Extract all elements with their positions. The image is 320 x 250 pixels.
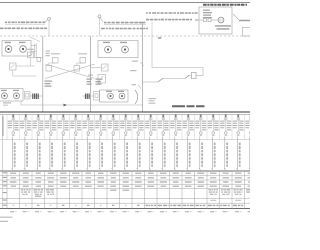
arrowhead 8: [99, 168, 101, 170]
switch S3: [102, 64, 109, 71]
bucket text 17: [208, 121, 213, 122]
pump motor M2: [20, 46, 27, 53]
breaker CB17: [212, 114, 214, 118]
crossover wire 1: [45, 64, 95, 79]
feeder wire 1: [11, 137, 13, 169]
breaker CB-G: [204, 18, 207, 21]
panel box P1: [2, 41, 31, 57]
bucket text 8: [95, 121, 100, 122]
starter M2: [25, 132, 28, 135]
bucket separator 19: [231, 114, 233, 139]
breaker CB7: [87, 114, 89, 118]
bucket separator 16: [194, 114, 196, 139]
feeder tag 15: [189, 143, 191, 146]
bucket text 10: [120, 121, 125, 122]
starter M19: [237, 132, 240, 135]
arrowhead 4: [49, 168, 51, 170]
pump motor M8: [14, 93, 20, 99]
breaker CB14: [175, 114, 177, 118]
starter M11: [137, 132, 140, 135]
feeder tag 8: [101, 143, 103, 146]
breaker CB12: [150, 114, 152, 118]
arrowhead 1: [11, 168, 13, 170]
starter K0: [10, 63, 17, 70]
arrowhead 5: [61, 168, 63, 170]
breaker CB15: [187, 114, 189, 118]
bucket text 2: [20, 121, 25, 122]
note 1 leader: [45, 20, 48, 23]
bucket separator 10: [119, 114, 121, 139]
feeder wire 7: [86, 137, 88, 169]
bucket separator 13: [156, 114, 158, 139]
feeder tag 14: [176, 143, 178, 146]
feeder wire 17: [211, 137, 213, 169]
feeder wire 13: [161, 137, 163, 169]
feeder B text right: [96, 79, 103, 80]
starter M10: [125, 132, 128, 135]
motor M4: [122, 46, 129, 53]
bucket separator 8: [94, 114, 96, 139]
arrowhead 7: [86, 168, 88, 170]
bucket separator 15: [181, 114, 183, 139]
wire: [30, 58, 32, 66]
note 2 leader: [100, 18, 103, 22]
wire to MCC: [143, 81, 159, 83]
pump motor M7: [2, 93, 8, 99]
starter M14: [175, 132, 178, 135]
bus name vertical text: [2, 116, 4, 136]
feeder wire 6: [74, 137, 76, 169]
arrowhead 15: [186, 168, 188, 170]
bucket text 13: [158, 121, 163, 122]
bucket text 3: [33, 121, 38, 122]
arrowhead 20: [249, 168, 251, 170]
feeder tag 1: [14, 143, 16, 146]
crossover wire 2: [45, 64, 95, 79]
feeder tag 6: [76, 143, 78, 146]
breaker CB18: [225, 114, 227, 118]
stab connection left: [32, 94, 34, 100]
wire tag1 drop: [48, 21, 50, 37]
feeder wire 20: [249, 137, 251, 169]
breaker CB16: [200, 114, 202, 118]
feeder tag 11: [139, 143, 141, 146]
motor M6: [119, 93, 125, 99]
breaker CB6: [75, 114, 77, 118]
schedule table row lines: [0, 175, 250, 177]
feeder wire 5: [61, 137, 63, 169]
breaker CB8: [100, 114, 102, 118]
bucket text 19: [233, 121, 238, 122]
starter M13: [162, 132, 165, 135]
junction arrow: [64, 104, 68, 107]
bucket text 11: [133, 121, 138, 122]
vertical feeder A: [42, 36, 44, 112]
motor M5: [108, 93, 114, 99]
breaker CB19: [237, 114, 239, 118]
starter M12: [150, 132, 153, 135]
row header labels: [3, 172, 7, 173]
bus label MCC (dark): [172, 105, 185, 107]
feeder tag 7: [89, 143, 91, 146]
arrow marker: [158, 37, 161, 38]
480V horizontal bus: [0, 111, 250, 113]
generator note text (dark): [203, 4, 207, 6]
general notes text: [0, 217, 13, 218]
bucket separator 5: [56, 114, 58, 139]
feeder wire 2: [24, 137, 26, 169]
hp value marks: [10, 211, 14, 212]
arrowhead 19: [236, 168, 238, 170]
bucket separator 11: [131, 114, 133, 139]
bucket text 16: [195, 121, 200, 122]
starter M20: [250, 132, 253, 135]
feeder tag 20: [251, 143, 253, 146]
breaker CB2: [25, 114, 27, 118]
feeder tag 2: [26, 143, 28, 146]
feeder tag 3: [39, 143, 41, 146]
motor labels P1: [5, 42, 12, 43]
generator data text: [203, 10, 210, 11]
switch contact 2: [158, 78, 163, 82]
arrowhead 13: [161, 168, 163, 170]
starter M1: [12, 132, 15, 135]
generator rating label: [215, 25, 231, 26]
bucket separator 12: [144, 114, 146, 139]
breaker CB4: [50, 114, 52, 118]
feeder wire 3: [36, 137, 38, 169]
disconnect switch S1: [27, 49, 34, 50]
feeder wire 10: [124, 137, 126, 169]
note tag 1: [48, 17, 51, 20]
fused switch: [37, 58, 41, 62]
pump motor M1: [5, 46, 12, 53]
arrowhead 17: [211, 168, 213, 170]
feeder tag 4: [51, 143, 53, 146]
bucket separator 17: [206, 114, 208, 139]
bucket text 9: [108, 121, 113, 122]
motor labels P4: [106, 91, 112, 92]
contactor K1: [53, 58, 59, 64]
bucket separator 18: [219, 114, 221, 139]
bucket text 7: [83, 121, 88, 122]
breaker CB3: [37, 114, 39, 118]
panel P2 note text: [3, 102, 11, 103]
bucket text 1: [8, 121, 13, 122]
starter K3: [98, 75, 106, 84]
feeder tag 5: [64, 143, 66, 146]
feeder tag 10: [126, 143, 128, 146]
wire: [163, 78, 185, 80]
arrowhead 12: [149, 168, 151, 170]
schedule table column lines: [1, 114, 3, 208]
motor M3: [105, 46, 112, 53]
bucket text 18: [220, 121, 225, 122]
tall row extra line col2: [35, 196, 41, 197]
arrowhead 6: [74, 168, 76, 170]
arrowhead 18: [224, 168, 226, 170]
feeder tag 13: [164, 143, 166, 146]
tall row small text cols 8-9: [110, 190, 117, 191]
feeder wire 19: [236, 137, 238, 169]
feeder wire 9: [111, 137, 113, 169]
feeder tag 12: [151, 143, 153, 146]
feeder wire right: [233, 14, 239, 20]
wires P1 to feeder: [31, 45, 36, 47]
feeder tag 16: [201, 143, 203, 146]
table cell text: [10, 173, 16, 174]
vertical feeder C: [142, 22, 144, 113]
text K3: [88, 75, 93, 76]
bucket strip bottom line: [0, 139, 250, 141]
contactor cluster right text: [78, 53, 87, 54]
arrowhead 3: [36, 168, 38, 170]
feeder wire 15: [186, 137, 188, 169]
bucket text 20: [245, 121, 250, 122]
switch contact 1: [189, 75, 192, 77]
label box right edge: [243, 27, 252, 36]
motor labels P3: [103, 42, 110, 43]
wire P2 to feeder: [30, 95, 43, 97]
CT text: [132, 84, 137, 85]
feeder wire 14: [174, 137, 176, 169]
CT arc: [135, 90, 138, 104]
breaker CB5: [62, 114, 64, 118]
starter M9: [112, 132, 115, 135]
starter M15: [187, 132, 190, 135]
feeder tag 18: [226, 143, 228, 146]
bucket text 15: [183, 121, 188, 122]
note 3 text: [146, 12, 148, 14]
feeder B text left: [87, 79, 93, 80]
note 1 text: [5, 22, 7, 24]
generator enclosure box: [199, 7, 232, 34]
motor labels P2: [1, 90, 7, 91]
demarcation dashed line: [0, 35, 250, 37]
starter M4: [50, 132, 53, 135]
contactor cluster left text: [51, 53, 60, 54]
panel box P3: [98, 41, 138, 58]
feeder tag 17: [214, 143, 216, 146]
feeder A text: [45, 81, 53, 82]
wire feed arrow: [196, 19, 200, 21]
component text: [46, 51, 51, 52]
feeder wire 8: [99, 137, 101, 169]
note 2 text: [104, 22, 107, 24]
aux device box P4: [94, 92, 100, 101]
schedule table frame: [0, 170, 250, 172]
bucket text 6: [70, 121, 75, 122]
starter M3: [37, 132, 40, 135]
arrowhead 16: [199, 168, 201, 170]
fuse F1: [196, 75, 203, 77]
feeder wire 4: [49, 137, 51, 169]
wire: [12, 70, 14, 76]
starter M16: [200, 132, 203, 135]
arrowhead 11: [136, 168, 138, 170]
feeder tag 9: [114, 143, 116, 146]
aux device box: [25, 92, 31, 100]
breaker CB9: [112, 114, 114, 118]
wire tag2 drop: [99, 18, 101, 36]
starter M17: [212, 132, 215, 135]
bucket text 5: [58, 121, 63, 122]
feeder wire 12: [149, 137, 151, 169]
starter M6: [75, 132, 78, 135]
vertical feeder B: [90, 36, 92, 112]
wire to generator: [211, 19, 218, 21]
breaker CB20: [250, 114, 252, 118]
feeder tag 19: [239, 143, 241, 146]
device text right: [132, 61, 138, 62]
bucket separator 1: [6, 114, 8, 139]
feeder wire 16: [199, 137, 201, 169]
wire gen tie top: [151, 36, 153, 68]
starter M8: [100, 132, 103, 135]
bucket separator 14: [169, 114, 171, 139]
breaker CB10: [125, 114, 127, 118]
arrowhead 10: [124, 168, 126, 170]
breaker CB11: [137, 114, 139, 118]
leader to panel P1: [30, 37, 40, 42]
bucket separator 4: [44, 114, 46, 139]
feeder wire 11: [136, 137, 138, 169]
wire down: [202, 68, 204, 76]
riser wire horizontal: [20, 102, 22, 106]
arrowhead 9: [111, 168, 113, 170]
breaker CB1: [12, 114, 14, 118]
bucket separator 7: [81, 114, 83, 139]
bucket separator 20: [244, 114, 246, 139]
bucket separator 3: [31, 114, 33, 139]
bucket text 4: [45, 121, 50, 122]
generator G1: [218, 17, 224, 23]
panel box P4: [100, 90, 129, 102]
wire P4 to feeder: [83, 95, 94, 97]
stab connection mid: [85, 94, 87, 100]
bucket text 12: [145, 121, 150, 122]
bucket separator 2: [19, 114, 21, 139]
note tag 2: [98, 15, 101, 18]
arrowhead 2: [24, 168, 26, 170]
bucket text 14: [170, 121, 175, 122]
breaker CB13: [162, 114, 164, 118]
contactor K2: [80, 58, 86, 64]
starter M18: [225, 132, 228, 135]
bucket separator 9: [106, 114, 108, 139]
starter M7: [87, 132, 90, 135]
bucket separator 6: [69, 114, 71, 139]
arrowhead 14: [174, 168, 176, 170]
starter M5: [62, 132, 65, 135]
panel box P2: [0, 89, 23, 102]
wire note3 drop: [151, 22, 153, 37]
ATS note text: [149, 98, 157, 99]
feeder wire 18: [224, 137, 226, 169]
